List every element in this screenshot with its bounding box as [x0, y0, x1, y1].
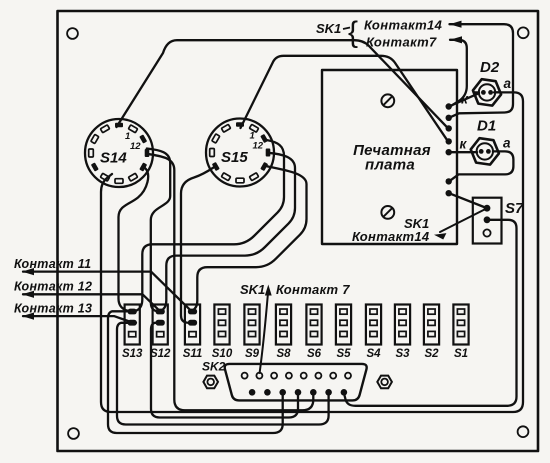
label SK1 contact14 annotation near S7	[434, 233, 447, 240]
svg-text:SK1: SK1	[240, 282, 265, 297]
terminal A	[446, 103, 452, 109]
terminal E	[446, 149, 452, 155]
wire S15 to S11 second pad	[181, 168, 214, 323]
svg-text:12: 12	[253, 141, 264, 152]
switch S3	[395, 305, 410, 345]
svg-text:S7: S7	[505, 200, 524, 217]
SK2 pin row bottom (pins 9-15, wired)	[249, 389, 256, 396]
switch S8	[276, 305, 291, 345]
SK1 annotation arrow line at S7	[440, 209, 487, 233]
terminal F	[446, 178, 452, 184]
wire terminal A to D2 cathode	[449, 93, 479, 106]
PCB board outline	[322, 70, 457, 244]
wire contact12 arrow to S12	[23, 294, 160, 311]
switch S11	[185, 305, 200, 345]
rotary switch S14	[85, 119, 153, 187]
wire S15 to S11 top pad	[190, 166, 307, 311]
svg-text:а: а	[503, 136, 511, 151]
svg-text:Контакт14: Контакт14	[364, 18, 443, 33]
D2 cathode lead	[474, 91, 480, 93]
svg-text:Контакт14: Контакт14	[352, 229, 430, 244]
SK2 contact7 annotation arrow line	[260, 295, 268, 373]
mounting hole top-left	[67, 28, 78, 39]
switch S12	[153, 305, 168, 345]
svg-text:S4: S4	[366, 348, 381, 360]
svg-text:Контакт 12: Контакт 12	[14, 280, 92, 294]
wire SK1 contact14 to terminal B	[450, 24, 514, 117]
wire S14 to SK2 pin5	[147, 154, 314, 411]
mounting hole top-right	[518, 27, 529, 38]
svg-text:S6: S6	[307, 348, 322, 360]
wire S15 to S12 top pad	[158, 153, 295, 311]
S15 contact pads	[236, 122, 244, 127]
svg-text:плата: плата	[365, 157, 415, 174]
svg-text:S2: S2	[424, 348, 439, 360]
SK2 screwlock right	[377, 376, 392, 389]
wire S13 second pad to SK2 pin6	[117, 323, 329, 425]
svg-text:S1: S1	[454, 348, 468, 360]
svg-text:Контакт7: Контакт7	[366, 35, 437, 50]
svg-text:SK2: SK2	[202, 360, 226, 374]
wire S7 pad2 to SK2 pin	[344, 220, 516, 406]
switch S13	[125, 305, 140, 345]
wire contact11 arrow to S11	[23, 272, 191, 311]
S14 contact pads	[115, 123, 123, 128]
terminal B	[446, 115, 452, 121]
wire D1 anode wrap to terminal F	[449, 151, 513, 181]
switch S9	[244, 305, 259, 345]
wire SK1 contact7 to terminal A	[450, 40, 467, 106]
rotary switch S15	[206, 119, 274, 187]
SK2 screwlock left	[203, 376, 218, 389]
svg-text:S14: S14	[100, 150, 127, 167]
mounting hole bottom-left	[68, 428, 79, 439]
diode D2	[473, 79, 501, 105]
svg-text:S3: S3	[395, 348, 410, 360]
switch S5	[336, 305, 351, 345]
svg-text:Контакт 11: Контакт 11	[14, 257, 91, 271]
svg-text:к: к	[460, 137, 468, 152]
wire contact13 arrow to S13	[23, 316, 130, 322]
svg-text:12: 12	[130, 141, 141, 152]
svg-text:S13: S13	[122, 348, 143, 360]
wire loop D2 anode to S14	[101, 92, 523, 412]
svg-text:Контакт 7: Контакт 7	[276, 282, 350, 297]
svg-text:SK1: SK1	[316, 21, 341, 36]
svg-text:S11: S11	[183, 348, 203, 360]
D2 anode lead	[495, 91, 499, 93]
switch S4	[366, 305, 381, 345]
screw top on PCB	[381, 94, 394, 107]
wire S14 to S13 top pad	[119, 168, 149, 312]
wire S14 pad1 to terminal C	[117, 40, 448, 127]
switch S7 box	[473, 198, 502, 244]
svg-text:к: к	[461, 92, 469, 107]
svg-text:D2: D2	[480, 59, 500, 76]
label SK1 contact7 annotation	[265, 285, 272, 296]
svg-text:а: а	[504, 76, 512, 91]
svg-text:S9: S9	[245, 348, 260, 360]
wire terminal G to S7 pad1	[449, 193, 487, 208]
switch S6	[306, 305, 321, 345]
switch S1	[453, 305, 468, 345]
switch S2	[424, 305, 439, 345]
svg-text:S12: S12	[150, 348, 171, 360]
wire S13 top pad to SK2 pin3	[108, 311, 283, 433]
svg-text:S10: S10	[212, 348, 233, 360]
SK2 pin row top (pins 1-8)	[242, 373, 248, 379]
terminal D	[446, 138, 452, 144]
svg-text:S5: S5	[336, 348, 351, 360]
svg-text:S8: S8	[276, 348, 291, 360]
mounting hole bottom-right	[518, 426, 529, 437]
svg-text:Контакт 13: Контакт 13	[14, 302, 92, 316]
wire S15 pad1 to terminal D	[241, 56, 448, 140]
svg-text:S15: S15	[221, 149, 248, 166]
terminal C	[446, 125, 452, 131]
wire S15 to S13 top pad	[134, 140, 284, 311]
switch S10	[214, 305, 229, 345]
terminal G	[446, 190, 452, 196]
svg-text:{: {	[348, 16, 358, 49]
diode D1	[471, 138, 499, 164]
screw bottom on PCB	[381, 206, 394, 219]
wire S14 to S12 top pad	[147, 149, 170, 312]
wire S12 second pad to SK2 pin4	[151, 323, 298, 418]
wire terminal E to D1 cathode	[449, 151, 477, 153]
connector SK2	[225, 364, 367, 401]
svg-text:D1: D1	[477, 118, 496, 135]
